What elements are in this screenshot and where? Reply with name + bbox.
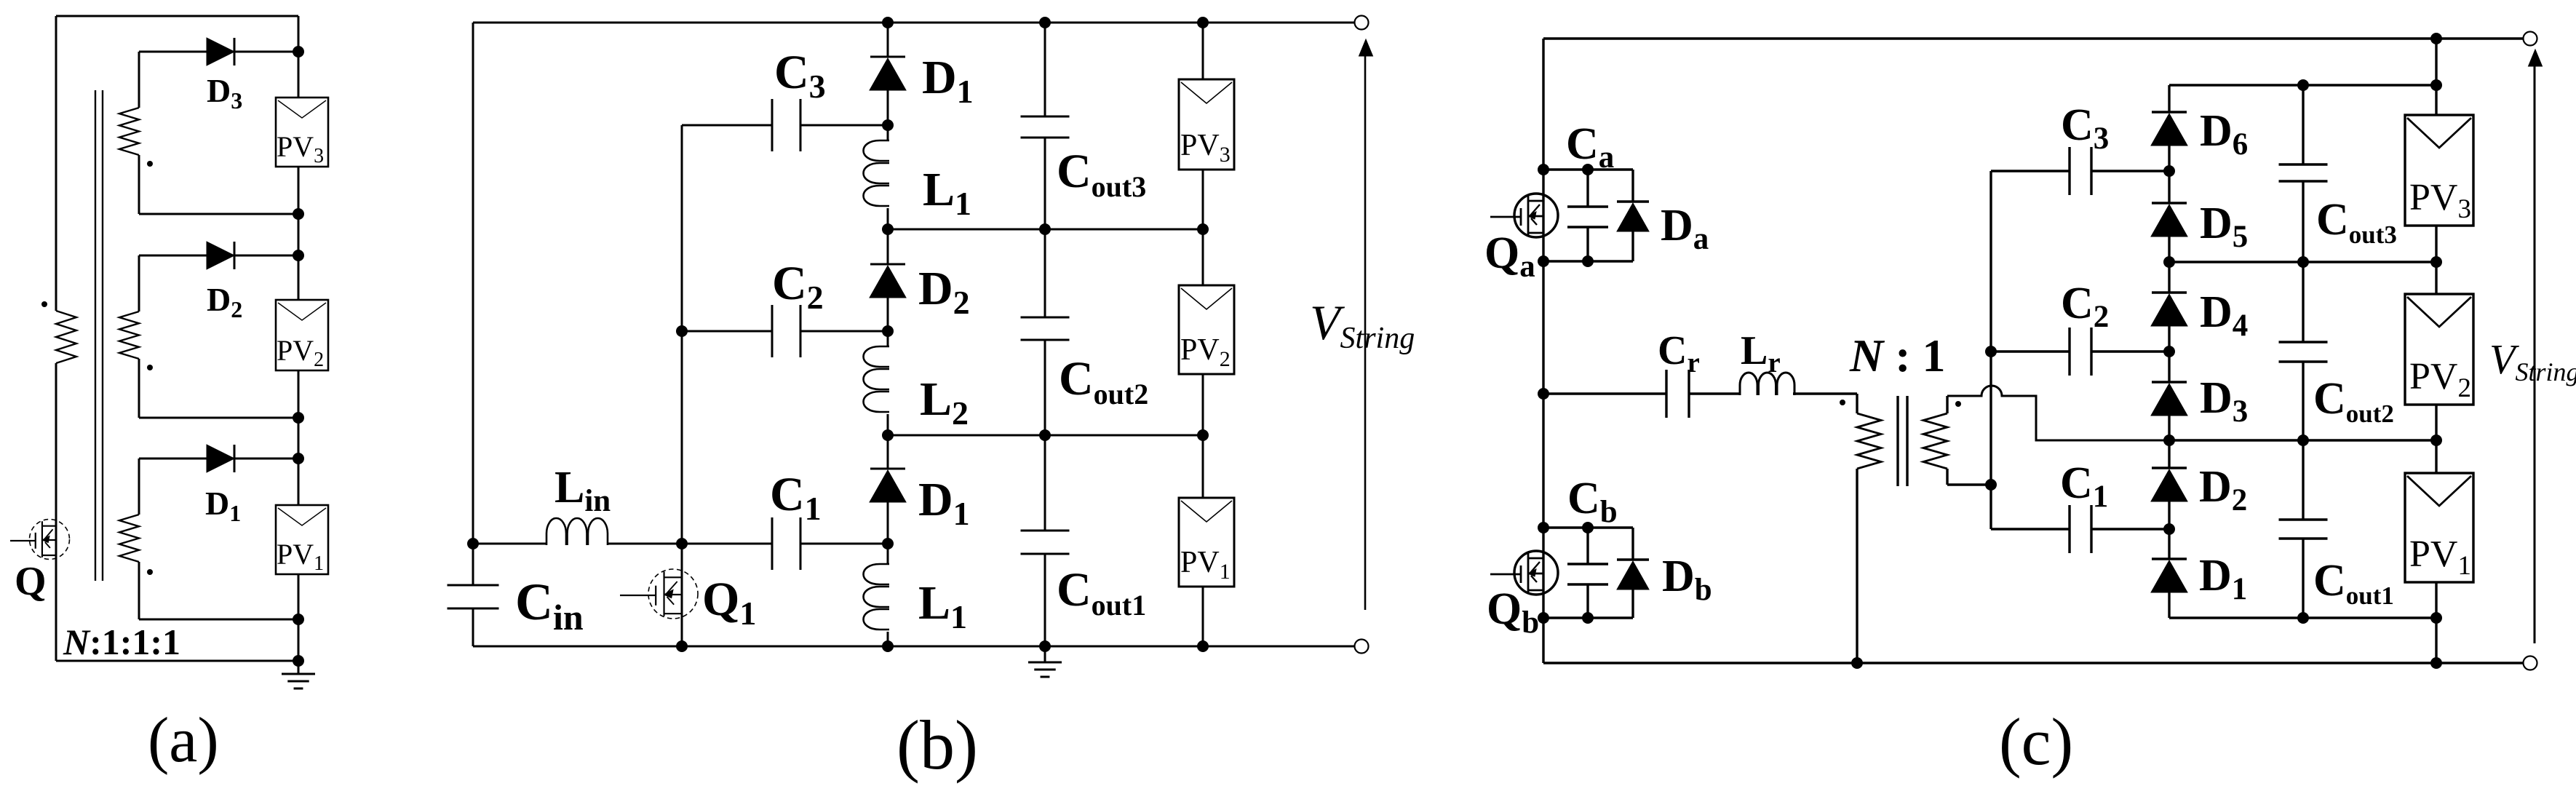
svg-text:Q: Q — [15, 559, 47, 604]
svg-text:(c): (c) — [1999, 704, 2073, 779]
svg-text:N:1:1:1: N:1:1:1 — [63, 622, 180, 662]
svg-text:(b): (b) — [897, 706, 978, 784]
svg-text:(a): (a) — [148, 705, 219, 776]
svg-text:N : 1: N : 1 — [1849, 330, 1946, 381]
